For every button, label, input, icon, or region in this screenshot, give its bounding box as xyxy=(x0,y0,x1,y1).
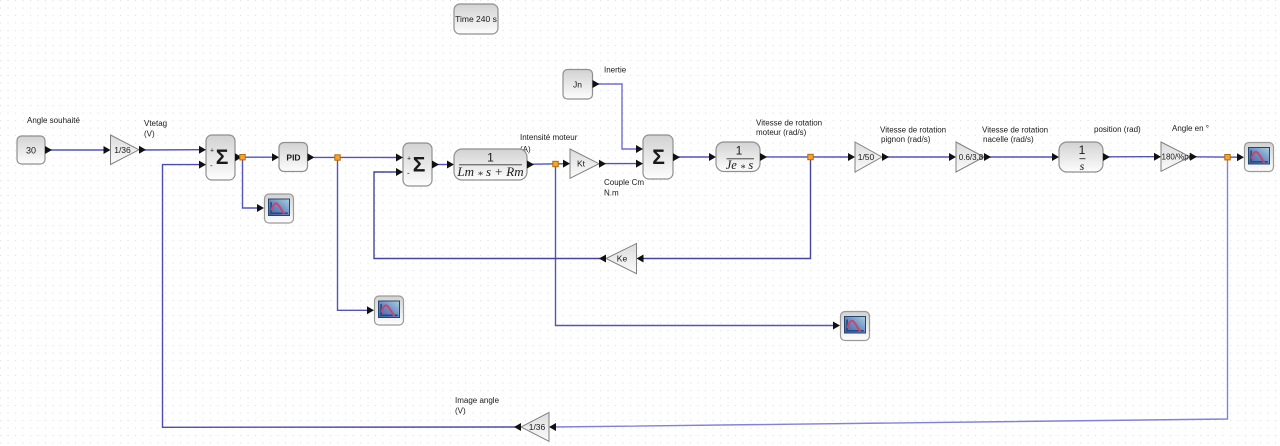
wire W20: node N5 down and across to gain 1/36 feedback xyxy=(553,159,1228,427)
svg-text:Time 240 s: Time 240 s xyxy=(455,14,497,24)
block: simulation time "Time 240 s" xyxy=(454,4,498,34)
wire W15: gain 0.6/3.8 to integrator G3 xyxy=(986,156,1055,158)
scope S4 xyxy=(1245,143,1274,172)
wire W3: summer U1 to PID xyxy=(240,156,276,158)
constant block Jn xyxy=(563,70,600,100)
svg-text:+: + xyxy=(210,148,214,155)
wire W2: gain 1/36 to summer U1 + input xyxy=(141,149,201,151)
arrow into scope S1 xyxy=(257,204,264,212)
svg-text:(V): (V) xyxy=(455,407,466,416)
svg-text:Σ: Σ xyxy=(413,154,426,177)
svg-text:moteur (rad/s): moteur (rad/s) xyxy=(756,128,807,137)
wire W1: constant 30 to gain 1/36 xyxy=(45,149,106,151)
svg-text:Σ: Σ xyxy=(652,146,665,169)
wire W17: gain 180/%pi to scope S4 xyxy=(1192,156,1240,158)
svg-text:-: - xyxy=(210,161,213,170)
link split node N3 xyxy=(553,161,558,166)
constant block K1 value 30 xyxy=(17,136,52,164)
svg-text:(V): (V) xyxy=(144,130,155,139)
gain G4 1/36 forward xyxy=(104,135,147,165)
svg-text:Couple Cm: Couple Cm xyxy=(604,178,644,187)
gain G10 1/36 feedback xyxy=(514,412,556,441)
svg-text:Vitesse de rotation: Vitesse de rotation xyxy=(756,119,822,128)
svg-text:PID: PID xyxy=(286,153,300,163)
wire W14: gain 1/50 to gain 0.6/3.8 xyxy=(884,156,952,158)
svg-text:Ke: Ke xyxy=(617,254,628,264)
svg-text:Σ: Σ xyxy=(216,146,229,169)
svg-text:Angle souhaité: Angle souhaité xyxy=(27,116,80,125)
scope S3 xyxy=(841,312,870,341)
wire W7: summer U2 to transfer function G1 xyxy=(437,164,450,166)
svg-text:Intensité moteur: Intensité moteur xyxy=(520,133,578,142)
controller PID xyxy=(272,143,315,172)
svg-text:position (rad): position (rad) xyxy=(1094,125,1141,134)
svg-text:Kt: Kt xyxy=(577,159,586,169)
svg-text:1: 1 xyxy=(1079,143,1086,157)
wire W11: constant Jn to summer U3 upper input xyxy=(597,84,639,149)
wire W10: gain Kt to summer U3 lower input xyxy=(604,163,639,165)
wire W12: summer U3 to transfer function G2 xyxy=(678,156,712,158)
wire W18: node N4 down and left to gain Ke input xyxy=(641,158,811,259)
transfer function G2: 1/(Je*s) xyxy=(709,142,767,174)
svg-text:+: + xyxy=(407,156,411,163)
gain G7 0.6/3.8 xyxy=(949,142,991,172)
svg-text:pignon (rad/s): pignon (rad/s) xyxy=(881,135,931,144)
svg-text:-: - xyxy=(407,169,410,178)
wire W13: transfer function G2 to gain 1/50 xyxy=(765,156,851,158)
wire W5: PID to summer U2 + input xyxy=(314,156,399,158)
svg-text:nacelle (rad/s): nacelle (rad/s) xyxy=(983,135,1034,144)
wire W19: gain Ke output up to summer U2 - input xyxy=(374,172,602,259)
wire W21: gain 1/36 feedback to summer U1 - input xyxy=(163,165,518,428)
wire W8: transfer function G1 to gain Kt xyxy=(532,163,566,166)
svg-text:Vitesse de rotation: Vitesse de rotation xyxy=(982,126,1048,135)
svg-text:Inertie: Inertie xyxy=(604,66,627,75)
svg-text:1/36: 1/36 xyxy=(529,422,546,432)
svg-text:Vitesse de rotation: Vitesse de rotation xyxy=(880,126,946,135)
link split node N4 xyxy=(808,154,813,159)
svg-text:Je * s: Je * s xyxy=(726,158,754,174)
gain G9 Ke feedback xyxy=(599,244,644,274)
svg-text:Jn: Jn xyxy=(573,80,582,90)
svg-text:s: s xyxy=(1080,159,1085,173)
summer U1 xyxy=(199,135,242,180)
summer U2 xyxy=(396,143,439,186)
gain G5 Kt xyxy=(563,149,606,178)
gain G6 1/50 xyxy=(848,142,889,172)
svg-text:N.m: N.m xyxy=(604,189,619,198)
svg-text:1: 1 xyxy=(487,151,494,165)
gain G8 180/%pi xyxy=(1154,142,1197,171)
svg-text:1/50: 1/50 xyxy=(858,152,875,162)
link split node N1 xyxy=(240,155,245,160)
link split node N2 xyxy=(335,155,340,160)
svg-text:1: 1 xyxy=(736,144,743,158)
svg-text:30: 30 xyxy=(26,146,36,156)
arrow into scope S4 xyxy=(1237,153,1244,161)
svg-text:0.6/3.8: 0.6/3.8 xyxy=(959,153,984,162)
svg-text:Image angle: Image angle xyxy=(455,396,500,405)
svg-text:Lm * s + Rm: Lm * s + Rm xyxy=(456,164,523,182)
wire W16: integrator G3 to gain 180/%pi xyxy=(1106,156,1157,158)
wire W6: node N2 down to scope S2 xyxy=(338,158,371,310)
wire W4: node N1 down to scope S1 xyxy=(243,158,261,208)
wire W9: node N3 down to scope S3 xyxy=(556,165,837,326)
transfer function G1: 1/(Lm*s+Rm) xyxy=(447,149,534,182)
svg-text:180/%pi: 180/%pi xyxy=(1162,153,1191,162)
link split node N5 xyxy=(1225,155,1230,160)
svg-text:Angle en °: Angle en ° xyxy=(1172,124,1209,133)
summer U3 xyxy=(636,135,680,179)
scope S2 xyxy=(375,296,404,325)
scope S1 xyxy=(265,194,294,223)
svg-text:1/36: 1/36 xyxy=(114,145,131,155)
arrow into scope S2 xyxy=(367,306,374,314)
svg-text:Vtetag: Vtetag xyxy=(144,119,167,128)
arrow into scope S3 xyxy=(833,322,840,330)
integrator G3: 1/s xyxy=(1052,142,1110,173)
